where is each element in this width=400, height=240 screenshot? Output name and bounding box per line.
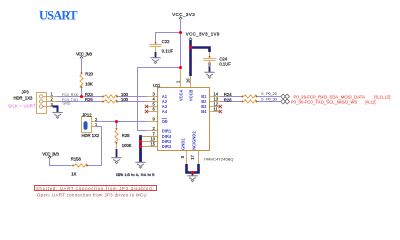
svg-text:0.1UF: 0.1UF <box>162 49 174 54</box>
svg-text:P0_30-FC0_TXD_SCL_MISO_WS: P0_30-FC0_TXD_SCL_MISO_WS <box>291 99 358 104</box>
svg-text:DIR2: DIR2 <box>162 144 172 149</box>
svg-text:100K: 100K <box>122 143 132 148</box>
svg-text:GND: GND <box>63 102 71 106</box>
svg-text:B4: B4 <box>201 109 207 114</box>
svg-text:0: 0 <box>261 96 264 101</box>
svg-text:DIR1: DIR1 <box>162 129 172 134</box>
svg-text:R20: R20 <box>85 72 93 77</box>
svg-text:FC0_RXD: FC0_RXD <box>62 93 79 97</box>
svg-text:1: 1 <box>175 80 180 83</box>
svg-text:1K: 1K <box>71 172 76 177</box>
svg-text:2: 2 <box>51 97 54 102</box>
svg-text:DIR# 1:B to A, 0:A to B: DIR# 1:B to A, 0:A to B <box>116 174 155 178</box>
svg-text:SILK = UART: SILK = UART <box>8 104 36 109</box>
svg-text:VCC_3V3_1V9: VCC_3V3_1V9 <box>186 32 220 37</box>
svg-text:GND1: GND1 <box>181 138 186 150</box>
svg-text:R26: R26 <box>224 97 232 102</box>
svg-text:C22: C22 <box>162 39 170 44</box>
svg-text:R158: R158 <box>71 157 82 162</box>
svg-text:VCC_3V3: VCC_3V3 <box>172 12 195 17</box>
svg-text:8: 8 <box>180 155 185 158</box>
svg-text:R28: R28 <box>122 133 130 138</box>
svg-text:NC/GND2: NC/GND2 <box>191 131 196 150</box>
svg-text:VCC_3V3: VCC_3V3 <box>42 152 59 157</box>
svg-text:0.1UF: 0.1UF <box>219 62 231 67</box>
svg-text:11: 11 <box>214 107 219 112</box>
svg-text:15: 15 <box>151 142 156 147</box>
svg-text:74AVC4T245BQ: 74AVC4T245BQ <box>204 157 234 162</box>
svg-text:VCC_3V3: VCC_3V3 <box>76 52 93 57</box>
svg-text:[4,11]: [4,11] <box>366 99 376 104</box>
svg-text:USART: USART <box>39 9 78 23</box>
svg-text:9: 9 <box>153 117 156 122</box>
svg-text:100: 100 <box>121 97 129 102</box>
svg-text:VCCA: VCCA <box>179 89 184 101</box>
svg-text:JP3: JP3 <box>22 89 30 94</box>
svg-text:VCCB: VCCB <box>189 89 194 101</box>
svg-text:U11: U11 <box>153 83 161 88</box>
svg-text:A4: A4 <box>162 109 168 114</box>
svg-text:[6,11,12]: [6,11,12] <box>374 94 390 99</box>
svg-text:P0_29: P0_29 <box>266 91 277 96</box>
svg-text:6: 6 <box>153 107 156 112</box>
svg-text:HDR 1X2: HDR 1X2 <box>82 133 100 138</box>
svg-text:P0_30: P0_30 <box>266 96 277 101</box>
svg-text:OE: OE <box>162 119 168 124</box>
svg-text:17: 17 <box>190 155 195 160</box>
svg-text:R25: R25 <box>85 97 93 102</box>
svg-text:HDR_1X3: HDR_1X3 <box>14 96 34 101</box>
svg-text:JP12: JP12 <box>82 113 92 118</box>
svg-text:Shorted: UART connection from: Shorted: UART connection from JP3 disabl… <box>36 186 153 191</box>
svg-text:Open: UART connection from JP3: Open: UART connection from JP3 driven to… <box>37 192 147 197</box>
svg-text:16: 16 <box>186 78 191 83</box>
svg-text:10K: 10K <box>85 82 93 87</box>
svg-text:0: 0 <box>261 91 264 96</box>
